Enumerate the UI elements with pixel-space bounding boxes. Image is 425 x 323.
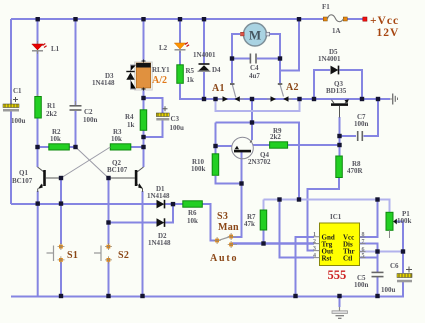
cross-coupling diagonal base Q1 to R3 [61, 147, 110, 178]
svg-text:100u: 100u [11, 117, 26, 125]
wire A1right-A2 node row [216, 123, 300, 200]
svg-text:100k: 100k [191, 165, 206, 173]
svg-text:10k: 10k [50, 135, 61, 143]
relay RLY1 coil [135, 60, 153, 91]
wire D5 loop [314, 70, 362, 99]
DOTS (wire junctions) [35, 17, 405, 298]
relay contact A1 [219, 84, 244, 102]
svg-text:Auto: Auto [210, 253, 238, 264]
svg-text:2k2: 2k2 [46, 110, 57, 118]
svg-text:100u: 100u [381, 286, 396, 294]
wire vcc rail y199.5 [264, 200, 390, 213]
wire D1 rail segment [165, 204, 216, 241]
wire pin2 trigger / Auto [232, 242, 314, 245]
resistor R5 [177, 65, 184, 84]
resistor R1 [35, 94, 42, 118]
wire P1 wiper [396, 222, 404, 252]
svg-text:R1: R1 [47, 102, 56, 110]
svg-text:L2: L2 [159, 44, 168, 52]
pushbutton S1 [47, 243, 65, 264]
wire gnd symbol stub [339, 297, 341, 308]
svg-text:4u7: 4u7 [249, 72, 260, 80]
wire C7 branch [340, 99, 379, 136]
svg-text:S1: S1 [67, 250, 78, 261]
resistor R2 [49, 144, 70, 150]
svg-text:2: 2 [313, 239, 316, 245]
svg-text:S3: S3 [217, 211, 228, 222]
capacitor C2 [70, 101, 82, 110]
wire Q1 collector feed [37, 147, 39, 167]
pushbutton S2 [94, 243, 112, 264]
LED L2 (orange) [174, 40, 189, 53]
wire Q4 emitter drop [251, 99, 253, 140]
svg-text:12V: 12V [377, 27, 400, 39]
svg-text:1: 1 [313, 232, 316, 238]
resistor R4 [140, 110, 147, 131]
svg-text:+Vcc: +Vcc [370, 15, 399, 27]
svg-text:C4: C4 [250, 64, 259, 72]
svg-text:10k: 10k [187, 217, 198, 225]
node S2/D2 branch [106, 220, 110, 224]
svg-text:Ctl: Ctl [343, 254, 352, 262]
svg-text:C6: C6 [390, 262, 399, 270]
svg-text:C1: C1 [13, 87, 22, 95]
wire L2/R5 column [180, 19, 204, 99]
wire C5 column [377, 252, 379, 297]
resistor R8 [336, 156, 343, 178]
LED L1 (red) [32, 41, 47, 54]
wire R7 bottom stub [263, 230, 265, 244]
svg-text:1k: 1k [127, 121, 135, 129]
wire A2 feed from top rail [280, 19, 299, 71]
svg-text:BC107: BC107 [107, 166, 128, 174]
wire pin5 ctl [360, 257, 378, 259]
wire pin4 reset [280, 200, 315, 258]
node R9/R8 tap [337, 143, 341, 147]
svg-text:1k: 1k [187, 76, 195, 84]
svg-text:1N4148: 1N4148 [148, 239, 171, 247]
wire Q2 emitter column [142, 191, 144, 297]
node base Q2 [106, 176, 110, 180]
wire R7 top stub [263, 200, 265, 211]
motor M [241, 23, 270, 46]
node relay bottom [141, 96, 145, 100]
svg-text:A/2: A/2 [152, 75, 167, 86]
wire R3 row [131, 146, 144, 148]
svg-text:R5: R5 [186, 67, 195, 75]
node bottom rail junctions [59, 294, 63, 298]
switch S3 (Man/Auto) [214, 233, 237, 248]
svg-text:4: 4 [313, 253, 316, 259]
wire pin6 thr row [360, 251, 404, 253]
+Vcc terminal [363, 17, 367, 21]
wire C6 column [402, 252, 404, 297]
resistor R10 [212, 154, 219, 176]
svg-text:5: 5 [362, 253, 365, 259]
resistor R6 [183, 201, 203, 207]
svg-text:A1: A1 [212, 83, 225, 94]
node top rail junctions [36, 17, 40, 21]
svg-text:100n: 100n [354, 281, 369, 289]
capacitor C5 [372, 272, 384, 276]
svg-text:2N3702: 2N3702 [248, 158, 271, 166]
node gnd-left rail junctions [36, 201, 40, 205]
svg-text:D4: D4 [212, 66, 221, 74]
wire S1 column [60, 178, 62, 297]
ground symbol [332, 307, 348, 318]
diode D4 (1N4001, vertical) [198, 64, 211, 71]
wire C3 branch [144, 98, 163, 137]
svg-text:M: M [249, 28, 261, 43]
wire R8 bottom jog [308, 178, 340, 251]
relay contact A2 [267, 84, 293, 102]
svg-text:2k2: 2k2 [270, 133, 281, 141]
transistor Q2 (BC107) [109, 167, 144, 192]
node contact rail junctions [202, 97, 206, 101]
svg-text:BC107: BC107 [12, 177, 33, 185]
wire gnd-left rail y204 [11, 203, 157, 205]
diode D2 (1N4148) [157, 218, 165, 227]
svg-text:IC1: IC1 [330, 213, 342, 221]
wire Q3 base column [339, 117, 341, 156]
wire R10 bottom / Q4 base [216, 152, 242, 237]
wire L1/R1 column [37, 19, 39, 147]
svg-text:Rst: Rst [322, 254, 333, 262]
capacitor C1 (electrolytic, on left rail) [3, 97, 19, 112]
wire left rail below C1 [10, 111, 12, 204]
svg-text:47k: 47k [244, 220, 255, 228]
svg-text:A2: A2 [286, 82, 299, 93]
wire S2 column [108, 178, 110, 297]
node R10 top [213, 144, 217, 148]
transistor Q3 (BD135) [331, 99, 349, 117]
IC1 555 timer box [314, 223, 366, 266]
svg-text:100k: 100k [397, 217, 412, 225]
wire R10 top column [216, 123, 233, 155]
connector/chassis right of Q3 [390, 94, 398, 105]
node thr row junctions [375, 249, 379, 253]
potentiometer P1 [386, 212, 397, 238]
node C3 bottom junction [141, 135, 145, 139]
node C7 tap [337, 134, 341, 138]
svg-text:S2: S2 [118, 250, 129, 261]
svg-text:555: 555 [328, 268, 347, 282]
diode D3 (flyback on relay, thin loop) [126, 65, 136, 89]
node base Q1 [59, 176, 63, 180]
diode D1 (1N4148) [157, 200, 165, 209]
svg-text:3: 3 [313, 246, 316, 252]
svg-text:100n: 100n [354, 120, 369, 128]
transistor Q4 (2N3702) [232, 137, 254, 159]
resistor R9 [270, 142, 288, 148]
svg-text:100n: 100n [83, 116, 98, 124]
svg-text:1N4148: 1N4148 [92, 79, 115, 87]
node flipflop collector row [35, 145, 39, 149]
wire motor right / A2 common [270, 34, 280, 83]
diode D5 (1N4001) [331, 66, 339, 75]
wire R4 bottom to R3 [143, 130, 145, 167]
svg-text:R4: R4 [125, 113, 134, 121]
wire pin1 gnd [296, 237, 315, 297]
cross-coupling diagonal R2 to base Q2 [76, 147, 109, 178]
svg-text:RLY1: RLY1 [152, 66, 170, 74]
wire bottom rail [11, 296, 404, 298]
wire R2 row [38, 146, 76, 148]
node C4 left [230, 56, 234, 60]
svg-text:1N4001: 1N4001 [193, 51, 216, 59]
wire contact rail [204, 98, 390, 100]
node vcc rail junctions [277, 197, 281, 201]
transistor Q1 (BC107) [38, 167, 62, 192]
wire top rail right of fuse [345, 18, 364, 20]
resistor R3 [110, 144, 131, 150]
wire A1left-A2right U link [216, 99, 300, 111]
svg-text:1N4001: 1N4001 [318, 55, 341, 63]
wire D2 branch [109, 204, 174, 223]
svg-text:10k: 10k [111, 135, 122, 143]
wire relay column [143, 19, 145, 110]
wire top rail [11, 18, 326, 20]
wire R9 row [253, 144, 340, 146]
svg-text:Q1: Q1 [19, 169, 28, 177]
wire C2 column [75, 19, 77, 147]
wire pin8 vcc [360, 200, 378, 238]
node R7/pin2 [261, 241, 265, 245]
wire pin7 dis to thr node [360, 244, 378, 252]
node Q4 emitter top [250, 120, 254, 124]
capacitor C3 (electrolytic) [156, 106, 169, 120]
capacitor C4 [250, 54, 256, 64]
svg-text:470R: 470R [347, 167, 364, 175]
svg-text:C2: C2 [84, 108, 93, 116]
svg-text:7: 7 [362, 239, 365, 245]
capacitor C7 [358, 131, 363, 141]
svg-text:100u: 100u [170, 124, 185, 132]
wire left rail [10, 19, 12, 104]
svg-text:BD135: BD135 [326, 87, 347, 95]
capacitor C6 (electrolytic) [397, 267, 412, 283]
svg-text:F1: F1 [322, 3, 330, 11]
wire D4 column [203, 19, 205, 99]
fuse F1 [323, 15, 347, 22]
svg-text:8: 8 [362, 232, 365, 238]
svg-text:R6: R6 [188, 209, 197, 217]
node C4 right [278, 56, 282, 60]
svg-text:Man: Man [218, 222, 239, 233]
svg-text:L1: L1 [51, 45, 60, 53]
svg-text:C3: C3 [171, 115, 180, 123]
node Q4 base / R10 bottom [239, 181, 243, 185]
resistor R7 [260, 210, 267, 230]
wire C4 row [232, 58, 280, 60]
svg-text:1A: 1A [332, 27, 341, 35]
svg-text:1N4148: 1N4148 [147, 192, 170, 200]
wire motor left / A1 common [232, 34, 240, 83]
wire Q1 emitter column [37, 191, 39, 297]
